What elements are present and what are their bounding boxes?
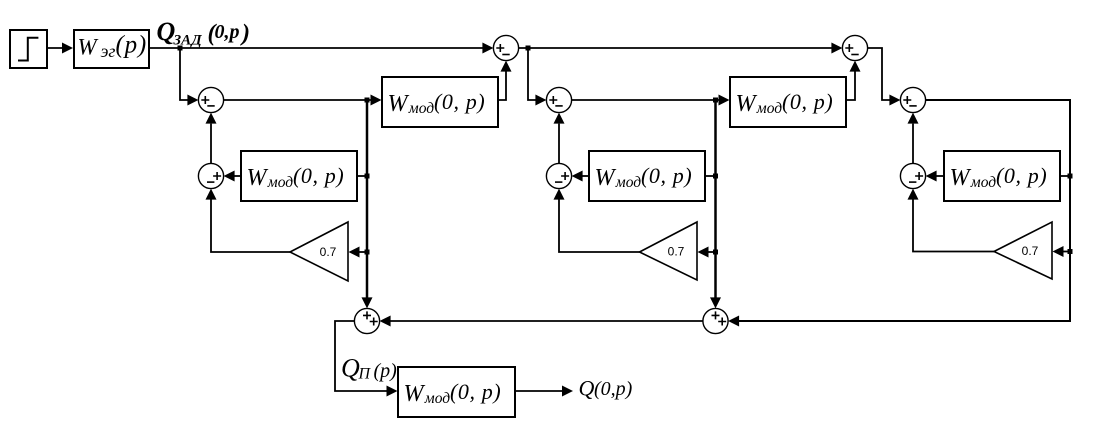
wire V2 to tri2	[698, 247, 716, 258]
label Q_P(p)	[341, 353, 397, 382]
summator T1	[493, 35, 518, 60]
wire node to sum S1	[180, 48, 198, 106]
svg-text:0.7: 0.7	[320, 245, 337, 259]
svg-text:мод: мод	[756, 100, 782, 117]
triangle gain 0.7 stage3	[994, 222, 1052, 279]
svg-text:мод: мод	[424, 390, 450, 407]
node dot V3 FB3	[1068, 174, 1073, 179]
svg-text:(0, p): (0, p)	[450, 379, 501, 404]
block W_eg(p)	[74, 30, 149, 68]
svg-text:мод: мод	[615, 174, 641, 191]
svg-text:(0,p): (0,p)	[594, 378, 633, 400]
step source box	[10, 30, 47, 68]
node dot V1 top	[365, 98, 370, 103]
summator B1	[354, 308, 379, 333]
node dot V3 tri3	[1068, 249, 1073, 254]
summator FB1	[198, 163, 223, 188]
summator S2	[546, 87, 571, 112]
wire S2 to block F2	[572, 95, 730, 106]
node dot after T1	[526, 46, 531, 51]
wire FB3 block to FB3 sum	[926, 171, 944, 182]
svg-text:): )	[240, 21, 250, 47]
wire V2 stub to FB2 block	[705, 175, 716, 177]
svg-text:ЗАД: ЗАД	[173, 32, 203, 48]
node dot V2 FB2	[713, 174, 718, 179]
wire node to sum S2	[528, 48, 546, 106]
triangle gain 0.7 stage2	[640, 222, 698, 280]
node dot V1 FB1	[365, 174, 370, 179]
block FB1 W_mod(0,p)	[241, 151, 357, 201]
node dot V1 tri1	[365, 250, 370, 255]
vertical V2	[710, 100, 721, 308]
wire FB1 top to S1 bottom	[206, 113, 217, 164]
svg-text:W: W	[595, 165, 617, 191]
svg-text:(0, p): (0, p)	[996, 163, 1047, 188]
block FB3 W_mod(0,p)	[944, 151, 1060, 201]
svg-text:(0, p): (0, p)	[782, 89, 833, 114]
summator B2	[703, 308, 728, 333]
wire B1 to bottom block	[335, 321, 398, 397]
svg-text:(0, p): (0, p)	[293, 163, 344, 188]
triangle gain 0.7 stage1	[290, 222, 348, 281]
svg-text:(0, p): (0, p)	[641, 163, 692, 188]
svg-text:0,p: 0,p	[215, 21, 240, 43]
node dot Q_ZAD	[178, 46, 183, 51]
wire W_eg to sum T1 (Q_ZAD line)	[149, 43, 493, 54]
wire V3 stub to FB3 block	[1060, 175, 1070, 177]
svg-text:W: W	[388, 91, 410, 117]
wire FB2 top to S2 bottom	[554, 113, 565, 164]
wire FB3 top to S3 bottom	[908, 113, 919, 164]
block FB2 W_mod(0,p)	[589, 151, 705, 201]
svg-text:W: W	[247, 165, 269, 191]
wire F1 up to T1	[498, 61, 512, 100]
wire B2 to B1	[380, 316, 703, 327]
svg-text:П: П	[358, 366, 372, 383]
summator FB3	[900, 163, 925, 188]
svg-text:(0, p): (0, p)	[434, 89, 485, 114]
svg-text:W: W	[404, 381, 426, 407]
block F1 W_mod(0,p)	[382, 77, 498, 127]
wire V3 to tri3	[1053, 246, 1071, 257]
wire T1 to T2	[519, 43, 843, 54]
wire F2 up to T2	[846, 61, 861, 100]
svg-text:W: W	[736, 91, 758, 117]
wire FB2 block to FB2 sum	[572, 171, 589, 182]
svg-text:W: W	[950, 165, 972, 191]
summator S1	[198, 87, 223, 112]
wire step to W_eg	[47, 43, 73, 54]
svg-text:0.7: 0.7	[1022, 244, 1039, 258]
vertical V1	[362, 100, 373, 308]
summator FB2	[546, 163, 571, 188]
wire FB1 block to FB1 sum	[224, 171, 241, 182]
wire tri2 to FB2 bottom	[554, 189, 640, 252]
label Q(0,p)	[579, 376, 633, 401]
wire bottom block to output	[515, 386, 573, 397]
svg-text:Q: Q	[579, 376, 595, 401]
svg-text:Q: Q	[341, 353, 360, 382]
wire V1 to tri1	[349, 247, 368, 258]
summator T2	[842, 35, 867, 60]
wire V1 stub to FB1 block	[357, 175, 367, 177]
node dot V2 top	[713, 98, 718, 103]
svg-text:0.7: 0.7	[668, 245, 685, 259]
svg-text:W: W	[78, 35, 99, 60]
svg-text:(p): (p)	[116, 32, 148, 59]
wire S1 to block F1	[224, 95, 382, 106]
svg-text:эг: эг	[101, 41, 116, 61]
wire S3 right and down V3 to B2	[728, 100, 1070, 327]
wire tri1 to FB1 bottom	[206, 189, 291, 252]
label Q_ZAD(0,p)	[157, 17, 251, 49]
block F2 W_mod(0,p)	[730, 77, 846, 127]
summator S3	[900, 87, 925, 112]
svg-text:мод: мод	[970, 174, 996, 191]
wire T2 to sum S3	[868, 48, 901, 106]
block bottom W_mod(0,p)	[398, 367, 515, 417]
wire tri3 to FB3 bottom	[908, 189, 995, 252]
node dot V2 tri2	[713, 250, 718, 255]
svg-text:мод: мод	[408, 100, 434, 117]
svg-text:(p): (p)	[374, 360, 398, 382]
svg-text:мод: мод	[267, 174, 293, 191]
